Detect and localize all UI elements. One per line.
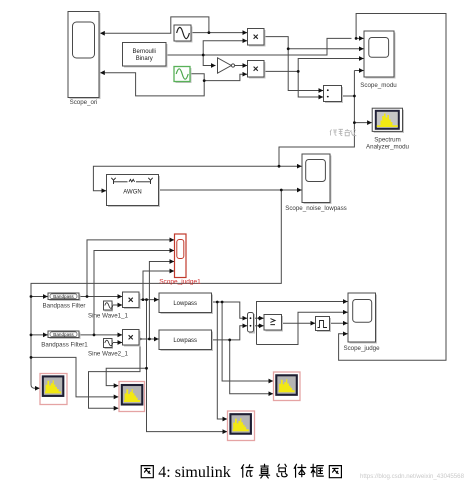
svg-text:Scope_ori: Scope_ori xyxy=(70,99,98,106)
svg-text:https://blog.csdn.net/weixin_4: https://blog.csdn.net/weixin_43045568 xyxy=(360,473,464,480)
svg-text:Binary: Binary xyxy=(136,56,153,62)
svg-text:Scope_modu: Scope_modu xyxy=(360,82,397,89)
svg-text:Sine Wave2_1: Sine Wave2_1 xyxy=(88,350,129,357)
svg-text:Bandpass: Bandpass xyxy=(53,294,74,299)
svg-text:Bandpass Filter1: Bandpass Filter1 xyxy=(41,341,88,348)
svg-text:Spectrum: Spectrum xyxy=(374,137,400,144)
svg-text:Sine Wave1_1: Sine Wave1_1 xyxy=(88,313,129,320)
svg-text:Lowpass: Lowpass xyxy=(173,338,197,344)
svg-text:Scope_judge1: Scope_judge1 xyxy=(159,279,201,286)
svg-text:Bernoulli: Bernoulli xyxy=(133,49,156,55)
svg-text:Bandpass Filter: Bandpass Filter xyxy=(43,302,86,309)
svg-text:Lowpass: Lowpass xyxy=(173,301,197,307)
svg-text:Scope_noise_lowpass: Scope_noise_lowpass xyxy=(285,205,347,212)
svg-text:4: simulink: 4: simulink xyxy=(158,464,230,481)
svg-text:Bandpass: Bandpass xyxy=(53,332,74,337)
svg-text:Scope_judge: Scope_judge xyxy=(343,345,380,352)
svg-text:Analyzer_modu: Analyzer_modu xyxy=(366,144,410,151)
svg-text:AWGN: AWGN xyxy=(123,190,141,196)
